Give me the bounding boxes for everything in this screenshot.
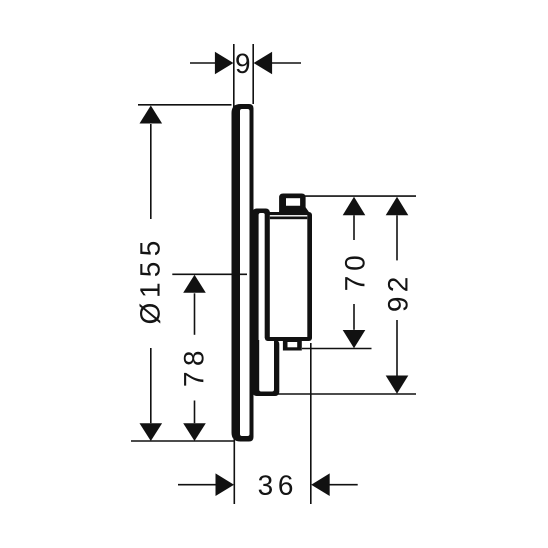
ext line left [233,44,235,108]
dimension 70 [302,197,372,349]
valve body [265,212,312,341]
arrow right [311,473,330,496]
arrow down [140,423,163,441]
arrow up [183,275,206,293]
arrow up [140,106,163,124]
arrow right [254,52,273,75]
ext line top [305,195,416,197]
label 70 [345,256,365,290]
label 92 [388,278,408,311]
ext line bottom [302,348,372,350]
top cap [279,194,306,213]
dimension 78 [172,274,247,441]
flange tube along body left [253,209,270,351]
dimension 9 (plate thickness) [190,44,301,108]
tail left [178,484,217,486]
arrow left [216,473,235,496]
ext line bottom [131,440,235,442]
arrow up [386,197,409,216]
ext line bottom [262,393,416,395]
tail right [271,62,301,64]
arrow up [343,197,366,216]
escutcheon plate (side view, 9mm thick) [232,104,254,442]
ext line right [310,343,312,504]
tail left [190,62,216,64]
arrow left [215,52,234,75]
dimension 36 [178,343,358,504]
label 78 [184,352,204,386]
tail right [329,484,358,486]
arrow down [183,423,206,441]
ext line right [252,44,254,104]
bottom port [283,341,302,351]
arrow down [343,330,366,348]
ext line top (center line) [172,273,247,275]
label Ø155 [140,242,161,324]
dimension Ø155 [131,105,235,441]
ext line left [233,437,235,504]
dimension 92 [262,196,416,394]
label 9 [236,53,249,73]
label 36 [259,475,292,495]
ext line top [138,104,232,106]
lower supply stub [253,338,280,396]
cap shoulder [279,206,311,214]
arrow down [386,376,409,394]
